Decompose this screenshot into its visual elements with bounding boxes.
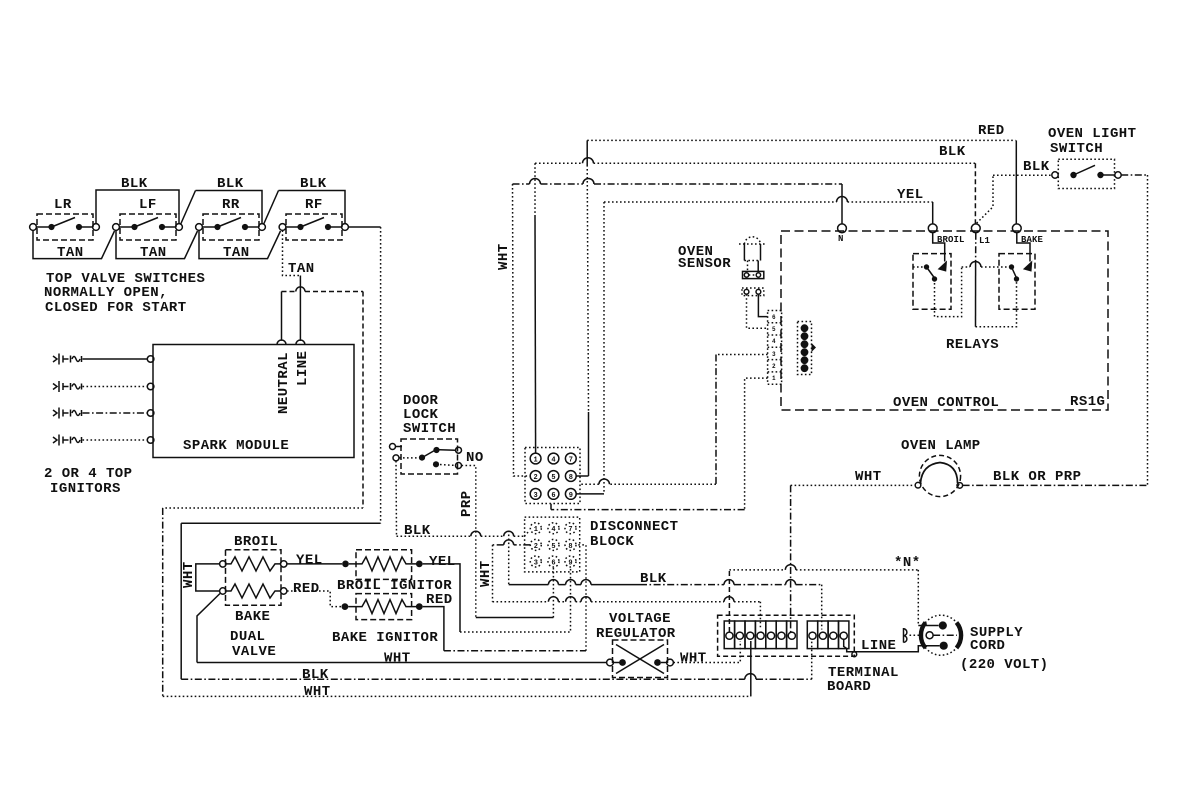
- wire WHT to lamp: [791, 469, 916, 485]
- svg-text:2: 2: [772, 363, 776, 370]
- wire relay link broil to bake: [935, 262, 1012, 317]
- relay broil: [913, 233, 951, 310]
- svg-text:(220 VOLT): (220 VOLT): [960, 657, 1049, 673]
- svg-text:1: 1: [534, 457, 538, 465]
- terminal board right group: [807, 621, 849, 649]
- terminal BROIL: [928, 224, 964, 245]
- svg-text:VOLTAGE: VOLTAGE: [609, 611, 671, 627]
- svg-text:RED: RED: [293, 581, 320, 597]
- svg-text:1: 1: [534, 526, 538, 534]
- wire LINE from terminal board to supply cord: [844, 638, 940, 657]
- svg-text:4: 4: [772, 338, 776, 345]
- svg-text:WHT: WHT: [855, 469, 882, 485]
- wire PRP riser to disconnect pin6: [552, 567, 554, 618]
- svg-text:TAN: TAN: [57, 245, 84, 261]
- svg-text:BLK: BLK: [217, 176, 244, 192]
- wire BLK main to terminal T2R: [509, 571, 822, 630]
- svg-text:CORD: CORD: [970, 638, 1005, 654]
- wire diagonal RR to BLK3: [264, 191, 279, 225]
- svg-text:*N*: *N*: [894, 555, 921, 571]
- svg-text:YEL: YEL: [296, 553, 323, 569]
- wire N neutral from T1 to supply cord: [729, 555, 938, 632]
- spark ignitor 2: [53, 381, 154, 392]
- svg-text:CLOSED FOR START: CLOSED FOR START: [45, 300, 187, 316]
- svg-text:BLK: BLK: [302, 667, 329, 683]
- wire sensor right pin to strip pin1: [758, 294, 767, 316]
- svg-text:BROIL: BROIL: [234, 534, 278, 550]
- svg-text:LF: LF: [139, 197, 157, 213]
- svg-text:WHT: WHT: [680, 651, 707, 667]
- svg-text:WHT: WHT: [496, 243, 512, 270]
- svg-text:9: 9: [568, 560, 572, 568]
- wire WHT rail bottom: [163, 641, 751, 700]
- wire diagonal LF to BLK2: [181, 191, 196, 225]
- svg-text:WHT: WHT: [181, 561, 197, 588]
- wire YEL broil ignitor to disconnect pin9: [423, 564, 460, 632]
- svg-text:6: 6: [551, 492, 555, 500]
- wire BLK OR PRP lamp to switch: [963, 469, 1148, 485]
- wire RF feeder down left side (BLK): [181, 227, 380, 679]
- terminal board left group: [724, 621, 797, 649]
- wire disconnect pin2 to W1: [493, 540, 531, 602]
- spark ignitor 1: [53, 354, 154, 365]
- svg-text:1: 1: [772, 375, 776, 382]
- svg-text:5: 5: [551, 543, 555, 551]
- svg-text:DISCONNECT: DISCONNECT: [590, 519, 679, 535]
- svg-text:SWITCH: SWITCH: [1050, 141, 1103, 157]
- wire W1 neutral to terminal 4: [493, 597, 761, 630]
- wire BLK LF-RR: [196, 176, 263, 224]
- svg-text:NORMALLY OPEN,: NORMALLY OPEN,: [44, 285, 168, 301]
- svg-text:BOARD: BOARD: [827, 679, 871, 695]
- terminal BAKE: [1012, 224, 1043, 245]
- wire WHT regulator to terminal T2: [673, 641, 740, 667]
- svg-text:LR: LR: [54, 197, 72, 213]
- board pin header (black): [798, 322, 817, 375]
- terminal N: [838, 224, 847, 244]
- wire TAN LF-RR: [116, 230, 198, 261]
- wire door lock common down to BLK: [395, 461, 398, 536]
- svg-text:RED: RED: [978, 123, 1005, 139]
- wire YEL to BROIL terminal: [604, 187, 933, 224]
- wire BLK LR-LF: [96, 176, 179, 224]
- wire L1 down and bake contact: [976, 233, 1017, 327]
- wire YEL to disconnect pin9 (dotted run): [460, 567, 571, 632]
- wire vertical WHT/N to pin2: [496, 184, 530, 476]
- svg-text:WHT: WHT: [478, 560, 494, 587]
- svg-text:3: 3: [772, 351, 776, 358]
- svg-text:YEL: YEL: [429, 554, 456, 570]
- svg-text:7: 7: [569, 457, 573, 465]
- svg-text:NO: NO: [466, 450, 484, 466]
- svg-text:RS1G: RS1G: [1070, 394, 1105, 410]
- relay bake: [999, 233, 1035, 310]
- note text: [44, 271, 205, 316]
- svg-text:RELAYS: RELAYS: [946, 337, 999, 353]
- wire NEUTRAL dashed to left rail: [163, 287, 363, 697]
- switch RF: [279, 197, 348, 240]
- spark module box: [153, 340, 354, 458]
- svg-text:WHT: WHT: [384, 651, 411, 667]
- wire vertical BLK to pin1: [534, 163, 537, 453]
- wire vertical RED to pin8: [576, 140, 588, 476]
- svg-text:L1: L1: [979, 236, 991, 246]
- wire TAN RF to spark module LINE: [283, 230, 315, 341]
- wire BLK RR-RF: [279, 176, 346, 224]
- svg-text:BAKE: BAKE: [235, 609, 270, 625]
- svg-text:VALVE: VALVE: [232, 644, 276, 660]
- svg-text:BLOCK: BLOCK: [590, 534, 634, 550]
- wire BLK door lock to disconnect pin1: [397, 523, 530, 539]
- wire RF right to BLK feeder: [348, 226, 380, 228]
- wire stub vertical at 508.7: [508, 531, 510, 585]
- switch LF: [113, 197, 183, 240]
- svg-text:DUAL: DUAL: [230, 629, 265, 645]
- wire RED top: [587, 123, 1016, 224]
- svg-text:PRP: PRP: [459, 490, 475, 517]
- svg-text:TAN: TAN: [288, 261, 315, 277]
- switch LR: [30, 197, 100, 240]
- wire BLK rail bottom: [181, 641, 812, 683]
- svg-text:6: 6: [551, 560, 555, 568]
- ignitor note: [44, 466, 133, 497]
- wire PRP from NO contact down: [459, 466, 494, 618]
- svg-text:2: 2: [534, 543, 538, 551]
- wire TAN RR-RF: [199, 230, 281, 261]
- wire strip pin6 to sensor circuit: [551, 378, 768, 510]
- svg-text:BAKE IGNITOR: BAKE IGNITOR: [332, 630, 438, 646]
- svg-text:WHT: WHT: [304, 684, 331, 700]
- wire WHT valve common: [181, 561, 220, 662]
- svg-text:BLK: BLK: [300, 176, 327, 192]
- svg-text:OVEN LIGHT: OVEN LIGHT: [1048, 126, 1137, 142]
- wire WHT valve to voltage regulator: [197, 651, 607, 667]
- wire TAN LR-LF: [33, 230, 115, 261]
- svg-text:SENSOR: SENSOR: [678, 256, 731, 272]
- wire light switch to lamp line: [1121, 175, 1147, 485]
- svg-text:8: 8: [568, 543, 572, 551]
- svg-text:RR: RR: [222, 197, 240, 213]
- svg-text:8: 8: [569, 474, 573, 482]
- svg-text:2 OR 4 TOP: 2 OR 4 TOP: [44, 466, 133, 482]
- wire WHT/N dash-dot to N terminal: [513, 178, 843, 224]
- spark ignitor 3: [53, 408, 154, 419]
- svg-text:3: 3: [534, 560, 538, 568]
- wire RED valve to bake ignitor: [287, 581, 341, 607]
- svg-text:9: 9: [569, 492, 573, 500]
- spark ignitor 4: [53, 435, 154, 446]
- wire BLK L1 to light switch: [977, 175, 1052, 223]
- svg-text:SPARK MODULE: SPARK MODULE: [183, 438, 289, 454]
- wire PRP cross to disconnect pin6: [476, 617, 554, 619]
- svg-text:5: 5: [551, 474, 555, 482]
- svg-text:BLK: BLK: [939, 144, 966, 160]
- svg-text:2: 2: [534, 474, 538, 482]
- strain relief symbol: [904, 628, 927, 643]
- switch RR: [196, 197, 266, 240]
- svg-text:4: 4: [551, 457, 555, 465]
- wire strip pin4 to WHT lamp line: [580, 355, 768, 485]
- svg-text:7: 7: [568, 526, 572, 534]
- wire sensor left pin to strip pin2: [747, 294, 768, 328]
- wire BLK top to L1: [535, 144, 975, 224]
- svg-text:BLK: BLK: [121, 176, 148, 192]
- wire RED bake ignitor to disconnect pin8: [423, 545, 586, 651]
- svg-text:LINE: LINE: [295, 351, 311, 386]
- svg-text:BLK: BLK: [1023, 159, 1050, 175]
- svg-text:YEL: YEL: [897, 187, 924, 203]
- svg-text:IGNITORS: IGNITORS: [50, 481, 121, 497]
- wire WHT lamp line down to T7: [790, 485, 792, 632]
- svg-text:TAN: TAN: [140, 245, 167, 261]
- svg-text:NEUTRAL: NEUTRAL: [276, 352, 292, 414]
- terminal L1: [971, 224, 990, 246]
- sensor mating connector: [742, 288, 764, 296]
- svg-text:OVEN LAMP: OVEN LAMP: [901, 438, 981, 454]
- svg-text:5: 5: [772, 326, 776, 333]
- svg-text:6: 6: [772, 314, 776, 321]
- svg-text:TAN: TAN: [223, 245, 250, 261]
- terminal bump LINE: [296, 340, 305, 345]
- svg-text:N: N: [838, 234, 844, 244]
- wire vertical YEL to pin9: [576, 202, 604, 494]
- terminal bump NEUTRAL: [277, 340, 286, 345]
- svg-text:BLK OR PRP: BLK OR PRP: [993, 469, 1082, 485]
- svg-text:RF: RF: [305, 197, 323, 213]
- svg-text:SWITCH: SWITCH: [403, 421, 456, 437]
- svg-text:3: 3: [534, 492, 538, 500]
- connector strip on control board edge: [768, 311, 782, 385]
- svg-text:RED: RED: [426, 592, 453, 608]
- svg-text:4: 4: [551, 526, 555, 534]
- svg-text:OVEN CONTROL: OVEN CONTROL: [893, 395, 999, 411]
